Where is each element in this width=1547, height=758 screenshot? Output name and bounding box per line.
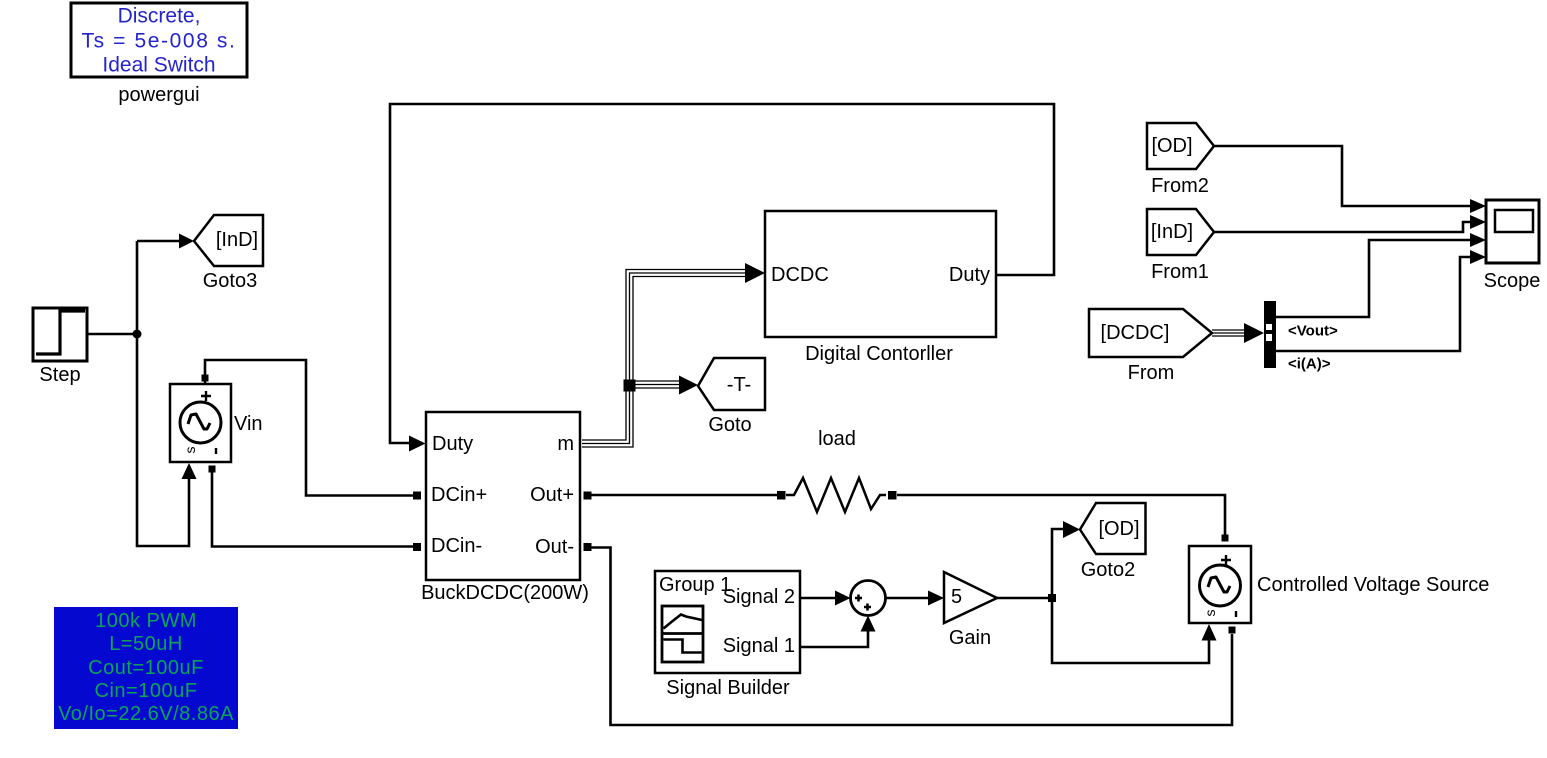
resistor load [786, 428, 886, 512]
svg-text:[DCDC]: [DCDC] [1101, 322, 1170, 344]
node bus junction [624, 380, 636, 392]
sum block Add [851, 581, 886, 616]
subsystem Digital Contorller [765, 211, 996, 365]
svg-text:[InD]: [InD] [1151, 221, 1193, 243]
wire Vin + to Buck DCin+ [205, 360, 413, 496]
arrow scope in2 [1470, 215, 1486, 229]
powergui block U_powergui [71, 3, 247, 106]
svg-text:Cin=100uF: Cin=100uF [95, 680, 198, 702]
svg-text:Out-: Out- [535, 536, 574, 558]
wire selector out2 to scope in4 [1276, 257, 1471, 351]
goto tag Goto3 [194, 215, 263, 292]
node junction at Step output [133, 330, 142, 339]
wire From bus to selector (3 lines) [1212, 330, 1248, 336]
controlled voltage source Vin [170, 375, 263, 473]
arrow into CVS s port [1202, 624, 1217, 641]
svg-text:Gain: Gain [949, 627, 991, 649]
svg-text:[OD]: [OD] [1098, 518, 1139, 540]
svg-text:Cout=100uF: Cout=100uF [88, 657, 204, 679]
wire Duty feedback from controller [390, 104, 1054, 443]
wire Out+ to load [592, 494, 782, 497]
svg-text:[OD]: [OD] [1151, 135, 1192, 157]
svg-text:m: m [557, 433, 574, 455]
svg-text:Vin: Vin [234, 413, 263, 435]
arrow into Buck Duty [409, 436, 426, 452]
svg-text:DCin+: DCin+ [431, 484, 487, 506]
svg-text:Goto: Goto [708, 414, 751, 436]
arrow into Vin s port [182, 463, 197, 479]
arrow into gain [928, 591, 944, 606]
svg-text:Duty: Duty [432, 433, 473, 455]
arrow scope in4 [1470, 250, 1486, 264]
from tag From2 [1147, 123, 1214, 197]
svg-text:Signal Builder: Signal Builder [666, 677, 790, 699]
svg-text:s: s [1202, 610, 1218, 617]
svg-text:load: load [818, 428, 856, 450]
node junction gain output [1048, 594, 1056, 602]
svg-text:From1: From1 [1151, 261, 1209, 283]
wire Signal2 to sum [800, 597, 836, 600]
svg-text:powergui: powergui [118, 84, 199, 106]
wire junction to Goto3 [137, 240, 181, 243]
bus selector [1264, 301, 1338, 373]
arrow scope in3 [1470, 233, 1486, 247]
wire Vin - to Buck DCin- [212, 470, 413, 547]
svg-text:Vo/Io=22.6V/8.86A: Vo/Io=22.6V/8.86A [58, 703, 234, 725]
wire Out- bottom return [592, 548, 1233, 726]
svg-text:DCDC: DCDC [771, 264, 829, 286]
arrow into Goto3 [179, 234, 194, 249]
wire selector out1 to scope in3 [1276, 240, 1471, 317]
svg-text:<Vout>: <Vout> [1288, 323, 1338, 340]
controlled voltage source CVS [1189, 535, 1489, 634]
svg-text:Signal 1: Signal 1 [723, 635, 795, 657]
arrow into sum bottom [861, 616, 876, 632]
svg-text:s: s [182, 447, 198, 454]
arrow into selector [1244, 323, 1264, 343]
wire m bus to controller (3 lines) [582, 270, 748, 448]
from tag From [1089, 309, 1212, 384]
svg-text:L=50uH: L=50uH [109, 633, 183, 655]
svg-text:Goto3: Goto3 [203, 270, 257, 292]
wire bus branch to Goto (3 lines) [635, 381, 688, 388]
node connector square right of load [888, 491, 897, 500]
annotation note [54, 607, 238, 729]
arrow scope in1 [1470, 199, 1486, 213]
svg-text:Group 1: Group 1 [659, 574, 731, 596]
svg-text:From: From [1128, 362, 1175, 384]
svg-text:<i(A)>: <i(A)> [1288, 356, 1331, 373]
goto tag Goto2 [1080, 503, 1146, 581]
subsystem BuckDCDC(200W) [413, 412, 592, 604]
signal builder Signal Builder [655, 571, 800, 699]
svg-text:Controlled Voltage Source: Controlled Voltage Source [1257, 574, 1489, 596]
svg-text:Signal 2: Signal 2 [723, 586, 795, 608]
svg-text:Step: Step [39, 364, 80, 386]
svg-text:Out+: Out+ [530, 484, 574, 506]
wire Signal1 to sum [800, 630, 868, 647]
from tag From1 [1147, 209, 1214, 283]
svg-text:Goto2: Goto2 [1081, 559, 1135, 581]
svg-text:5: 5 [951, 586, 962, 608]
svg-text:-T-: -T- [727, 374, 751, 396]
svg-text:BuckDCDC(200W): BuckDCDC(200W) [421, 582, 589, 604]
svg-text:From2: From2 [1151, 175, 1209, 197]
node connector square left of load [777, 491, 786, 500]
svg-text:Duty: Duty [949, 264, 990, 286]
wire Step output to junction [87, 333, 137, 336]
svg-text:Ideal Switch: Ideal Switch [102, 54, 215, 77]
wire gain output [997, 597, 1052, 600]
svg-text:Digital Contorller: Digital Contorller [805, 343, 953, 365]
svg-text:100k PWM: 100k PWM [95, 610, 197, 632]
wire junction down to CVS s [1052, 598, 1209, 663]
scope Scope [1484, 200, 1541, 292]
wire junction up to Goto2 [1052, 529, 1066, 598]
gain Gain [944, 572, 997, 649]
arrow into controller DCDC [745, 263, 765, 283]
arrow into Goto [679, 376, 698, 395]
svg-text:Ts = 5e-008 s.: Ts = 5e-008 s. [82, 30, 237, 53]
arrow into sum left [835, 591, 851, 606]
goto tag Goto [698, 358, 765, 436]
svg-text:[InD]: [InD] [216, 229, 258, 251]
svg-text:DCin-: DCin- [431, 535, 482, 557]
wire load to CVS + [897, 495, 1225, 535]
wire From1 to scope in2 [1214, 222, 1471, 232]
svg-text:Discrete,: Discrete, [118, 5, 201, 28]
svg-text:Scope: Scope [1484, 270, 1541, 292]
step source Step [33, 308, 87, 386]
wire junction vertical branch [137, 241, 189, 546]
wire sum to gain [886, 597, 934, 600]
wire From2 to scope in1 [1214, 146, 1471, 206]
arrow into Goto2 [1063, 521, 1080, 538]
